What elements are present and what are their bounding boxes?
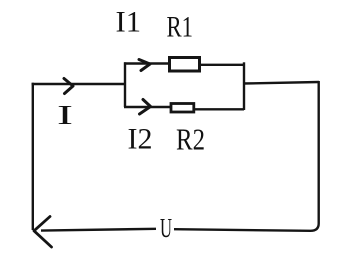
- svg-text:R1: R1: [167, 10, 194, 43]
- wire: left vertical side: [32, 83, 34, 230]
- node: right junction vertical: [243, 62, 245, 110]
- svg-text:R2: R2: [176, 122, 205, 157]
- svg-text:I2: I2: [128, 122, 153, 155]
- wire: output horizontal to top-right corner: [243, 82, 319, 84]
- svg-text:U: U: [160, 213, 172, 243]
- svg-text:I1: I1: [116, 5, 142, 38]
- current arrow I (chevron on main wire): [64, 79, 73, 94]
- wire: bottom branch (left of R2): [124, 106, 170, 108]
- wire: top branch (right of R1): [201, 64, 245, 66]
- resistor R2: [171, 104, 194, 113]
- current arrow I1 (chevron on top branch): [139, 60, 150, 71]
- wire: right vertical side with rounded bottom corner: [174, 81, 319, 231]
- current arrow I2 (chevron on bottom branch): [140, 100, 151, 115]
- resistor R1: [170, 58, 200, 72]
- wire: bottom branch (right of R2): [195, 108, 244, 110]
- wire: bottom return (left segment, to arrowhead): [41, 229, 156, 231]
- svg-text:I: I: [57, 100, 73, 130]
- node: left junction vertical: [124, 62, 126, 107]
- wire: top branch (left of R1): [124, 62, 168, 64]
- current/voltage arrow U (arrowhead pointing left at bottom): [34, 217, 52, 248]
- wire: main input horizontal (top-left): [32, 83, 125, 85]
